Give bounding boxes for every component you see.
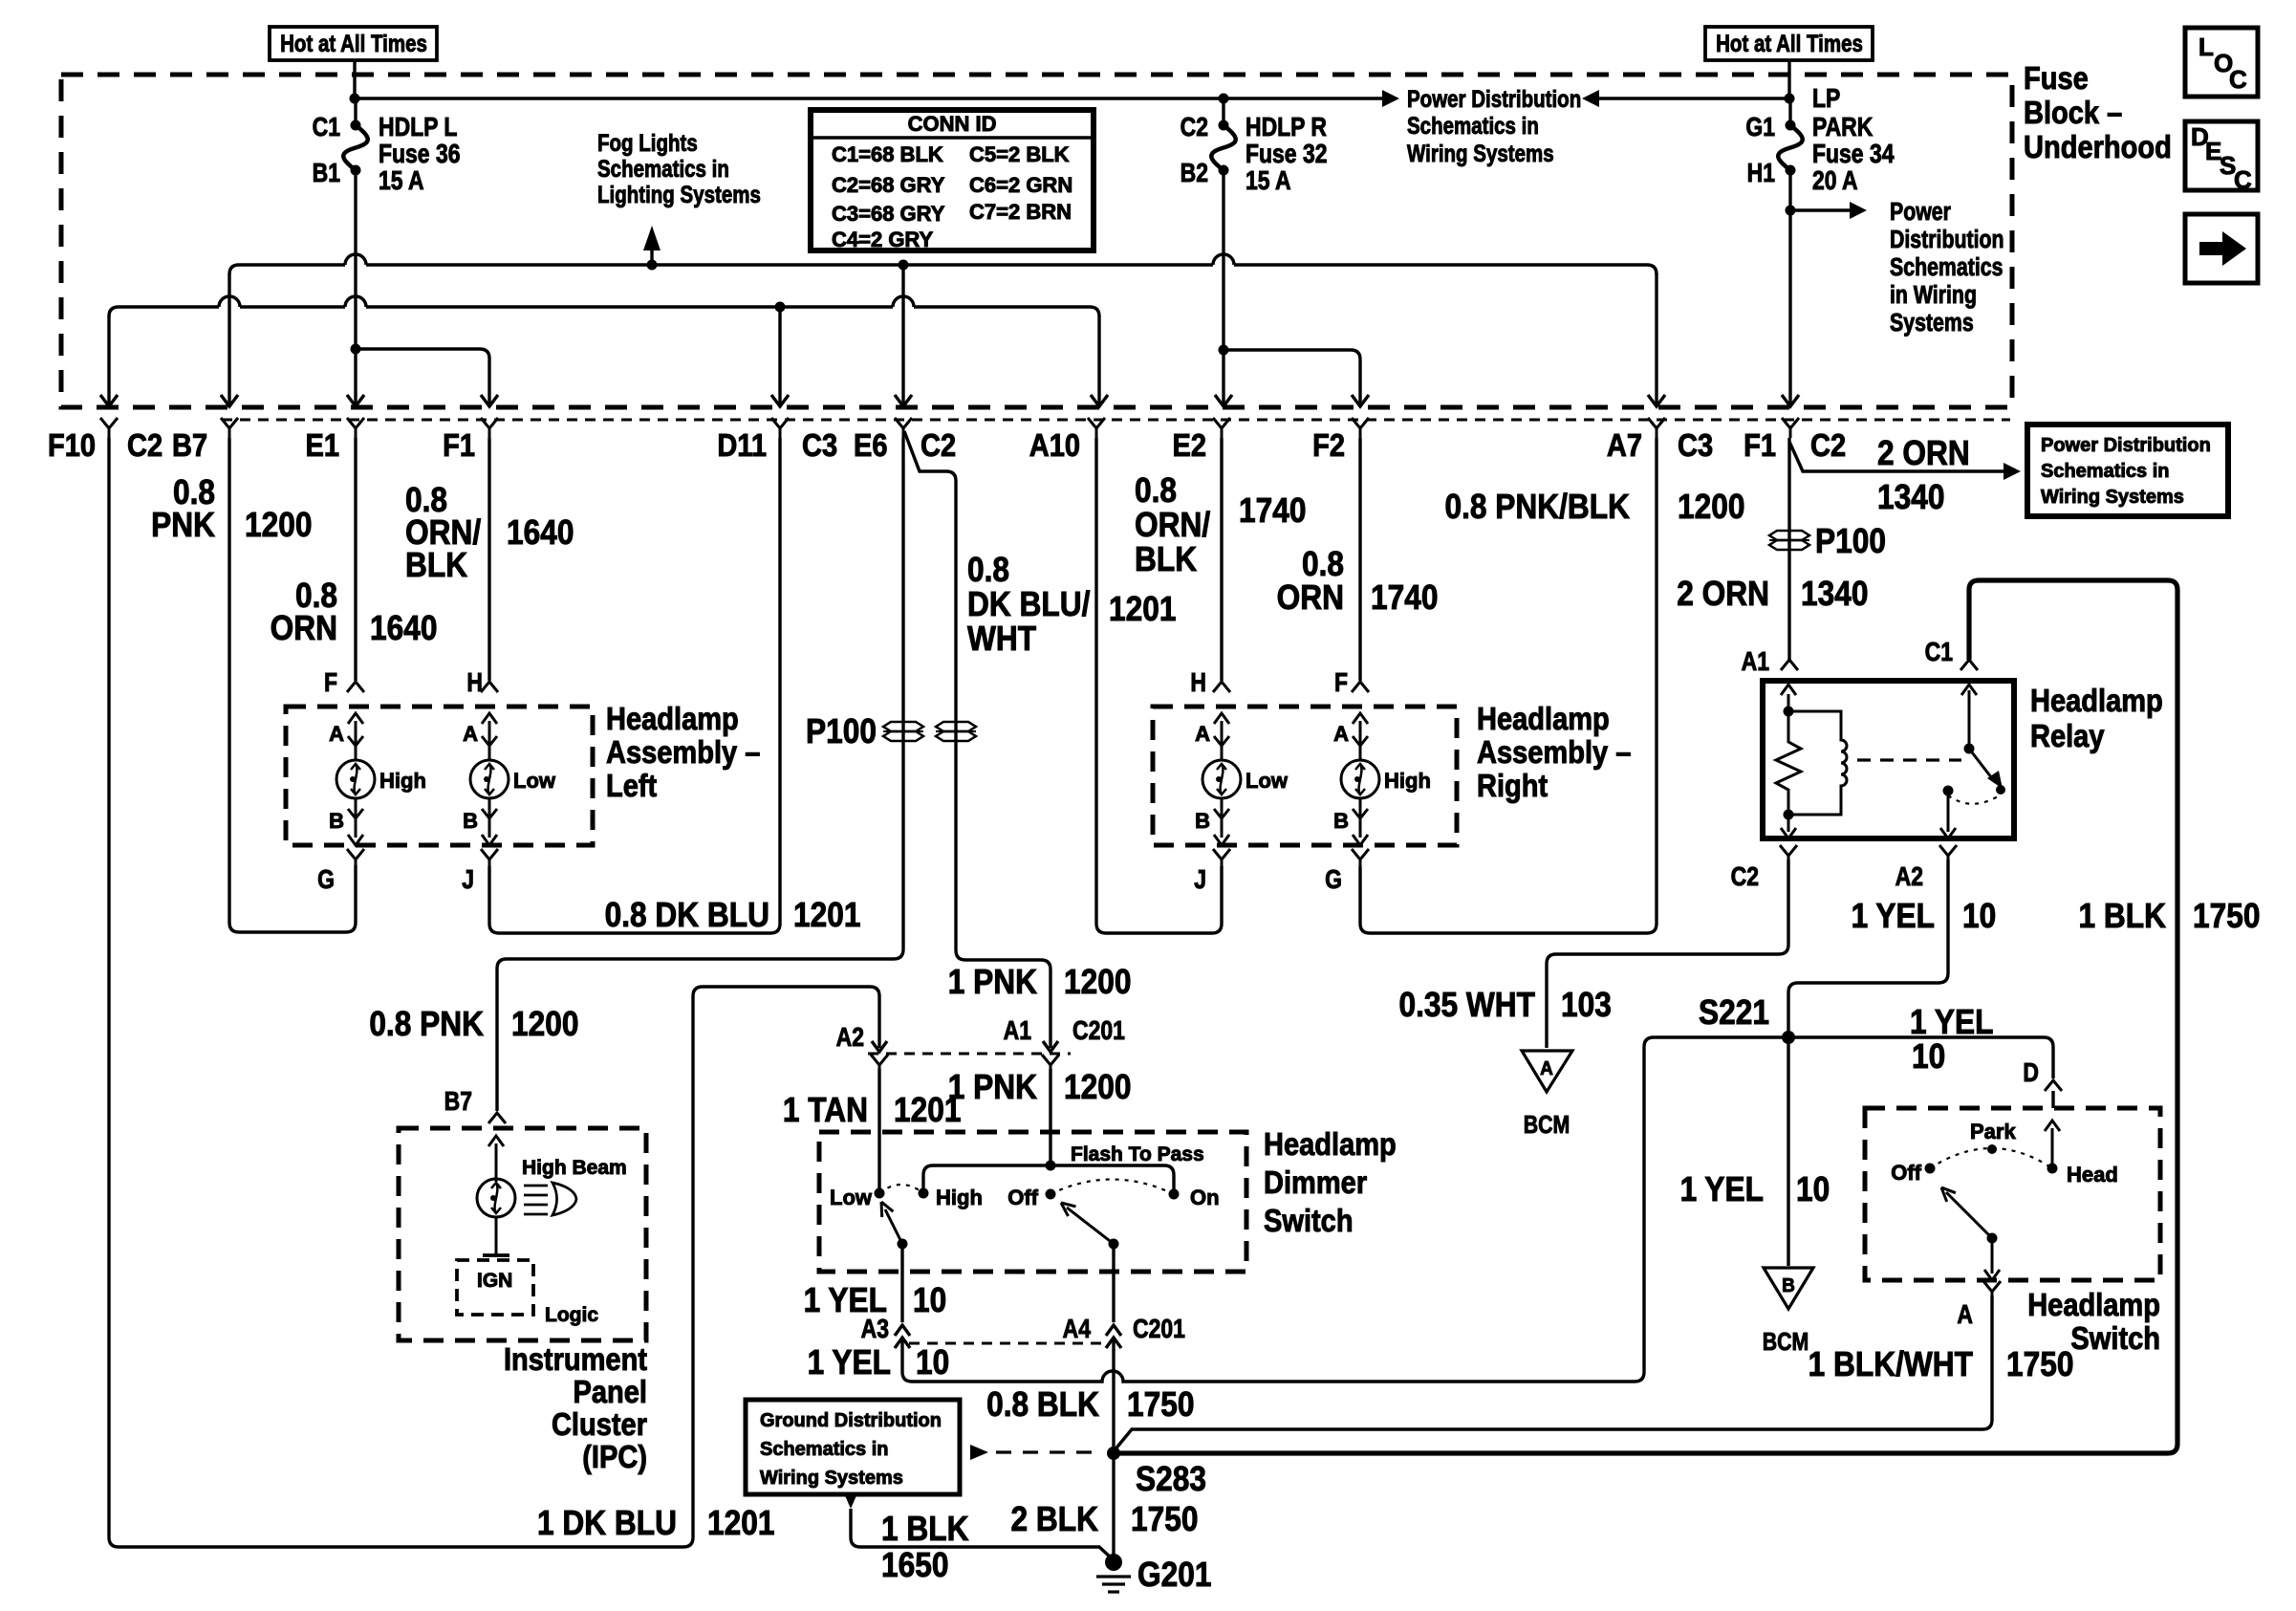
- wire C2 slant through P100 to A1: [904, 431, 1051, 1048]
- svg-text:A2: A2: [1895, 862, 1923, 892]
- contact High: [919, 1188, 929, 1199]
- connector J below left headlamp: [481, 849, 498, 867]
- svg-text:Wiring Systems: Wiring Systems: [1407, 140, 1554, 166]
- node left hot junction: [350, 94, 360, 104]
- svg-text:Power Distribution: Power Distribution: [1407, 85, 1581, 112]
- svg-text:A10: A10: [1029, 427, 1080, 463]
- splice P100 left pair: [883, 722, 923, 731]
- node E6 drop on bus1: [899, 260, 909, 271]
- svg-text:1 YEL: 1 YEL: [1910, 1003, 1993, 1041]
- svg-text:LP: LP: [1812, 84, 1840, 114]
- svg-text:H1: H1: [1747, 159, 1775, 188]
- wire D11 to J 0.8 DK BLU 1201: [489, 438, 780, 933]
- bulb Low right assembly: [1221, 721, 1224, 759]
- svg-text:Schematics: Schematics: [1890, 253, 2003, 282]
- svg-text:Fuse 34: Fuse 34: [1812, 140, 1895, 169]
- svg-text:C3: C3: [802, 427, 837, 463]
- connector C1 into relay: [1960, 660, 1978, 670]
- svg-text:Headlamp: Headlamp: [606, 701, 739, 736]
- IPC high beam indicator bulb: [495, 1143, 498, 1182]
- svg-text:A1: A1: [1742, 647, 1769, 677]
- wire bus1 to C2B7: [227, 273, 230, 405]
- svg-text:Logic: Logic: [545, 1304, 598, 1326]
- svg-text:Assembly –: Assembly –: [1477, 734, 1631, 770]
- svg-text:Schematics in: Schematics in: [1407, 112, 1539, 139]
- svg-text:1201: 1201: [1109, 590, 1176, 628]
- branch to power distribution note: [1790, 208, 1853, 211]
- svg-text:S283: S283: [1136, 1460, 1206, 1498]
- svg-text:E6: E6: [854, 427, 888, 463]
- connector G below right headlamp: [1352, 849, 1369, 867]
- svg-text:Underhood: Underhood: [2024, 129, 2172, 164]
- wire A3 1 YEL 10 run to S221 leg: [902, 1340, 1635, 1382]
- svg-text:Systems: Systems: [1890, 309, 1974, 337]
- svg-text:1640: 1640: [370, 609, 437, 647]
- svg-text:Hot at All Times: Hot at All Times: [280, 30, 427, 56]
- svg-text:PNK: PNK: [151, 506, 215, 544]
- svg-text:1200: 1200: [1064, 1068, 1131, 1106]
- svg-text:C: C: [2234, 165, 2252, 194]
- svg-text:Fog Lights: Fog Lights: [597, 129, 698, 156]
- svg-text:A: A: [1957, 1300, 1973, 1330]
- node fog arrow on bus1: [647, 260, 658, 271]
- svg-text:10: 10: [1796, 1170, 1830, 1208]
- svg-text:1750: 1750: [1131, 1500, 1198, 1538]
- wire C1 relay loop to S283 ground run: [1119, 580, 2177, 1453]
- contact On: [1169, 1189, 1180, 1200]
- wire S221 to headlamp switch D 1 YEL 10: [1788, 1037, 2053, 1078]
- svg-text:B2: B2: [1180, 159, 1208, 188]
- svg-text:C2=68 GRY: C2=68 GRY: [832, 173, 945, 197]
- svg-text:Schematics in: Schematics in: [2041, 461, 2170, 482]
- svg-text:Hot at All Times: Hot at All Times: [1716, 30, 1863, 56]
- svg-text:Block –: Block –: [2024, 95, 2122, 130]
- contact Park: [1987, 1144, 1997, 1154]
- svg-text:C201: C201: [1133, 1315, 1185, 1344]
- node D11 drop on bus2: [775, 302, 786, 313]
- svg-text:C2: C2: [921, 427, 956, 463]
- box Power Distribution Schematics in Wiring Systems right: [2027, 425, 2228, 516]
- svg-text:1750: 1750: [1127, 1385, 1194, 1424]
- C201 upper dashed line: [868, 1053, 1071, 1056]
- wire branch to F1: [356, 349, 489, 405]
- relay lower arrow: [1787, 815, 1790, 832]
- svg-text:BLK: BLK: [1135, 540, 1198, 578]
- svg-text:1 TAN: 1 TAN: [783, 1091, 868, 1129]
- svg-text:Wiring Systems: Wiring Systems: [2041, 487, 2184, 508]
- svg-text:C3=68 GRY: C3=68 GRY: [832, 202, 945, 226]
- svg-text:1 PNK: 1 PNK: [948, 1068, 1038, 1106]
- wire to E2: [1222, 350, 1224, 405]
- C201 lower dashed line: [909, 1342, 1104, 1345]
- svg-text:J: J: [1194, 865, 1206, 895]
- wire to E1: [354, 349, 357, 405]
- svg-text:Headlamp: Headlamp: [1264, 1126, 1397, 1162]
- connector G below left headlamp: [347, 849, 364, 867]
- dimmer pivot 1: [898, 1239, 908, 1250]
- svg-text:2 ORN: 2 ORN: [1677, 575, 1769, 613]
- dotted arc Off On: [1051, 1180, 1174, 1195]
- svg-text:B1: B1: [313, 159, 340, 188]
- headlamp assembly right dashed box: [1153, 707, 1457, 845]
- wire left hot box to bus: [353, 60, 356, 99]
- svg-text:P100: P100: [806, 712, 877, 751]
- svg-text:Distribution: Distribution: [1890, 226, 2004, 254]
- svg-text:1 DK BLU: 1 DK BLU: [537, 1504, 677, 1542]
- svg-text:C4=2 GRY: C4=2 GRY: [832, 228, 934, 251]
- svg-text:G: G: [317, 865, 335, 895]
- svg-text:ORN: ORN: [271, 609, 337, 647]
- connector A3 arrows: [895, 1325, 910, 1336]
- arrow right power distribution: [1382, 90, 1399, 107]
- arrow into F1: [1782, 395, 1799, 406]
- svg-text:1340: 1340: [1877, 478, 1944, 516]
- svg-text:1 YEL: 1 YEL: [1680, 1170, 1764, 1208]
- svg-text:H: H: [1190, 668, 1206, 698]
- ground distribution pointer: [970, 1445, 988, 1460]
- svg-text:B7: B7: [172, 427, 207, 463]
- CONN ID table: [811, 110, 1094, 250]
- svg-text:1740: 1740: [1371, 578, 1438, 617]
- svg-text:Wiring Systems: Wiring Systems: [760, 1468, 903, 1489]
- wire junction to High contact: [923, 1165, 1051, 1189]
- svg-text:E2: E2: [1172, 427, 1206, 463]
- svg-text:PARK: PARK: [1812, 113, 1874, 142]
- svg-text:Panel: Panel: [574, 1374, 647, 1409]
- svg-text:Ground Distribution: Ground Distribution: [760, 1410, 942, 1431]
- svg-text:Low: Low: [830, 1186, 873, 1209]
- svg-text:C1: C1: [313, 113, 340, 142]
- wire junction to On contact: [1051, 1165, 1174, 1189]
- svg-text:Schematics in: Schematics in: [760, 1439, 889, 1460]
- svg-text:A: A: [1195, 722, 1210, 746]
- svg-text:A1: A1: [1004, 1016, 1031, 1046]
- svg-text:1201: 1201: [707, 1504, 774, 1542]
- svg-text:1640: 1640: [507, 513, 574, 552]
- svg-text:1 YEL: 1 YEL: [808, 1343, 891, 1382]
- connector A1 C201: [1042, 1055, 1059, 1071]
- svg-text:BCM: BCM: [1763, 1328, 1809, 1357]
- wire bus2 to F10: [107, 316, 110, 405]
- flash to pass junction: [1046, 1161, 1056, 1171]
- svg-text:1650: 1650: [881, 1546, 948, 1584]
- arrow right to note: [1850, 202, 1867, 219]
- fuse block underhood dashed border: [61, 75, 2012, 407]
- node LP branch: [1786, 206, 1796, 216]
- svg-text:High: High: [936, 1186, 983, 1209]
- label Hot at All Times left: [270, 27, 437, 60]
- svg-text:0.8 PNK/BLK: 0.8 PNK/BLK: [1444, 488, 1630, 526]
- svg-text:1200: 1200: [1064, 963, 1131, 1001]
- wire E6 drop: [901, 265, 904, 405]
- connector A2 below relay: [1939, 845, 1957, 861]
- svg-text:1 BLK: 1 BLK: [2079, 897, 2167, 935]
- svg-text:0.35 WHT: 0.35 WHT: [1398, 986, 1535, 1024]
- svg-text:H: H: [466, 668, 483, 698]
- relay switch contact: [1943, 786, 1954, 796]
- svg-text:E1: E1: [305, 427, 339, 463]
- fuse HDLP R Fuse 32 15 A: [1222, 98, 1224, 125]
- wire F10 to dimmer A2 1 DK BLU 1201: [109, 438, 879, 1547]
- svg-text:C2: C2: [1810, 427, 1846, 463]
- svg-text:C1: C1: [1925, 638, 1953, 667]
- svg-text:Lighting Systems: Lighting Systems: [597, 181, 761, 207]
- svg-text:A3: A3: [861, 1315, 889, 1344]
- node E2 F2 branch: [1219, 345, 1229, 356]
- switch Head arrow to D: [2051, 1128, 2054, 1168]
- bulb High left assembly: [355, 721, 357, 759]
- svg-text:B: B: [1333, 809, 1349, 833]
- svg-text:1 YEL: 1 YEL: [1852, 897, 1935, 935]
- svg-text:Dimmer: Dimmer: [1264, 1165, 1367, 1200]
- svg-text:A: A: [1540, 1058, 1553, 1080]
- dotted arc Low High: [879, 1185, 923, 1193]
- svg-text:B: B: [329, 809, 344, 833]
- svg-text:in Wiring: in Wiring: [1890, 281, 1977, 310]
- fuse LP PARK Fuse 34 20 A: [1788, 98, 1791, 125]
- svg-text:Park: Park: [1970, 1120, 2016, 1143]
- wire S221 to BCM B 1 YEL 10: [1787, 1037, 1789, 1266]
- connector F right headlamp: [1352, 682, 1369, 692]
- svg-text:Switch: Switch: [2070, 1320, 2160, 1356]
- connector C2 below relay: [1780, 845, 1797, 861]
- wire S221 left leg to dimmer ground run: [1635, 1037, 1788, 1382]
- wire relay C2 to BCM A 0.35 WHT 103: [1547, 860, 1788, 1048]
- svg-text:Headlamp: Headlamp: [2027, 1287, 2160, 1322]
- wire bulb to IGN: [495, 1217, 498, 1254]
- svg-text:2 ORN: 2 ORN: [1877, 434, 1970, 472]
- svg-text:S221: S221: [1699, 993, 1769, 1032]
- wire F2 0.8 ORN 1740: [1358, 438, 1361, 681]
- svg-text:WHT: WHT: [967, 620, 1036, 658]
- svg-text:Relay: Relay: [2030, 718, 2105, 753]
- relay A1 arrow: [1787, 694, 1790, 711]
- wire A1 to flash junction 1 PNK 1200: [1049, 1069, 1051, 1165]
- headlamp switch dashed box: [1865, 1108, 2160, 1280]
- svg-text:1740: 1740: [1239, 491, 1306, 530]
- IGN dashed box: [457, 1260, 533, 1315]
- svg-text:C2: C2: [127, 427, 162, 463]
- wire A4 0.8 BLK 1750 to S283 with hop: [1112, 1340, 1115, 1448]
- bus 2 inside fuse block: [109, 296, 1099, 316]
- svg-text:A: A: [329, 722, 344, 746]
- LOC reference box: [2185, 28, 2258, 97]
- fuse HDLP L Fuse 36 15 A: [354, 98, 357, 125]
- svg-text:L: L: [2199, 33, 2214, 61]
- svg-text:Off: Off: [1007, 1186, 1038, 1209]
- connector A4 arrows: [1106, 1325, 1121, 1336]
- headlamp switch pivot: [1987, 1233, 1998, 1244]
- svg-text:D: D: [2023, 1058, 2039, 1088]
- svg-text:B: B: [1195, 809, 1210, 833]
- svg-text:F10: F10: [48, 427, 96, 463]
- svg-text:1200: 1200: [245, 506, 312, 544]
- svg-text:BCM: BCM: [1524, 1111, 1570, 1140]
- wire bus2 to A10: [1097, 316, 1100, 405]
- wire 1 BLK 1650 to G201: [844, 1493, 857, 1509]
- ground G201: [1105, 1554, 1122, 1571]
- svg-text:0.8 DK BLU: 0.8 DK BLU: [605, 896, 769, 934]
- svg-text:C: C: [2229, 65, 2247, 94]
- svg-text:P100: P100: [1815, 522, 1886, 560]
- bus 1 inside fuse block: [229, 254, 1657, 274]
- connector A1 into relay: [1781, 660, 1798, 670]
- svg-text:C7=2 BRN: C7=2 BRN: [969, 200, 1072, 224]
- bulb High right assembly: [1359, 721, 1362, 759]
- wire pivot1 to A3: [900, 1244, 903, 1322]
- svg-text:Schematics in: Schematics in: [597, 155, 729, 182]
- svg-text:On: On: [1190, 1186, 1220, 1209]
- connector H right headlamp: [1213, 682, 1230, 692]
- svg-text:Power: Power: [1890, 198, 1951, 227]
- dotted travel arc Off Park Head: [1930, 1148, 2052, 1168]
- svg-text:Low: Low: [1245, 769, 1289, 793]
- switch output arrow down: [1991, 1238, 1994, 1274]
- wire right hot box to bus: [1787, 60, 1790, 99]
- svg-text:Low: Low: [513, 769, 556, 793]
- svg-text:C2: C2: [1180, 113, 1208, 142]
- svg-text:1200: 1200: [511, 1005, 578, 1043]
- DESC reference box: [2185, 121, 2258, 190]
- wire A10 to right headlamp J 1201: [1096, 438, 1222, 933]
- fog lights arrow up: [643, 226, 661, 250]
- svg-text:High: High: [379, 769, 426, 793]
- svg-text:F: F: [1334, 668, 1348, 698]
- bulb Low left assembly: [488, 721, 491, 759]
- wire D11 drop: [778, 307, 781, 405]
- label Hot at All Times right: [1705, 27, 1873, 60]
- wire F1 0.8 ORN BLK 1640: [487, 438, 490, 681]
- wire branch to F2: [1224, 350, 1360, 405]
- headlamp relay box: [1763, 681, 2014, 838]
- svg-text:A7: A7: [1607, 427, 1642, 463]
- svg-text:G: G: [1325, 865, 1342, 895]
- connector B7 into IPC: [488, 1113, 506, 1123]
- connector H left headlamp: [481, 682, 498, 692]
- svg-text:1750: 1750: [2193, 897, 2260, 935]
- svg-text:Flash To Pass: Flash To Pass: [1071, 1143, 1204, 1165]
- svg-text:F2: F2: [1312, 427, 1345, 463]
- wire HDLP R fuse down: [1222, 170, 1224, 352]
- relay C1 arrow: [1968, 690, 1971, 749]
- wire E1 0.8 ORN 1640: [354, 438, 357, 681]
- box Ground Distribution Schematics in Wiring Systems: [746, 1400, 960, 1494]
- headlamp assembly left dashed box: [286, 707, 593, 845]
- wire bus1 to A7: [1655, 273, 1657, 405]
- connector D into headlamp switch: [2045, 1080, 2062, 1091]
- relay coil: [1788, 711, 1847, 815]
- svg-text:Fuse 32: Fuse 32: [1245, 140, 1327, 169]
- svg-text:ORN/: ORN/: [1135, 506, 1211, 544]
- svg-text:F1: F1: [443, 427, 475, 463]
- arrow reference box: [2185, 214, 2258, 283]
- svg-text:Right: Right: [1477, 768, 1548, 803]
- relay resistor: [1776, 711, 1801, 815]
- svg-text:Left: Left: [606, 768, 657, 803]
- arrow left from LP hot bus: [1582, 90, 1599, 107]
- node right hot junction: [1785, 94, 1795, 104]
- svg-text:High: High: [1384, 769, 1431, 793]
- hot bus toward power distribution: [355, 97, 1386, 99]
- svg-text:1200: 1200: [1678, 488, 1744, 526]
- fuse block connector dashed line: [222, 419, 2010, 422]
- IPC dashed box: [399, 1128, 646, 1340]
- svg-text:Instrument: Instrument: [504, 1341, 647, 1377]
- svg-text:0.8 PNK: 0.8 PNK: [369, 1005, 484, 1043]
- svg-text:A: A: [463, 722, 478, 746]
- svg-text:A2: A2: [836, 1023, 864, 1053]
- wire pivot2 to A4: [1112, 1244, 1115, 1322]
- svg-text:B7: B7: [444, 1087, 472, 1117]
- connector A2 C201: [871, 1055, 888, 1071]
- wire relay A2 1 YEL 10 to S221: [1788, 860, 1948, 1037]
- svg-text:Cluster: Cluster: [552, 1406, 647, 1442]
- svg-text:C5=2 BLK: C5=2 BLK: [969, 142, 1070, 166]
- svg-text:DK BLU/: DK BLU/: [967, 585, 1091, 623]
- wire A7 to right G 0.8 PNK BLK 1200: [1360, 438, 1657, 933]
- contact Off headlamp switch: [1925, 1164, 1936, 1174]
- svg-text:HDLP R: HDLP R: [1245, 113, 1327, 142]
- svg-text:Headlamp: Headlamp: [2030, 683, 2163, 718]
- contact Low: [875, 1188, 885, 1199]
- BCM triangle B: [1764, 1268, 1813, 1309]
- dimmer arm toward Low: [885, 1209, 902, 1244]
- wire switch A 1 BLK WHT 1750 to S283: [1114, 1295, 1992, 1451]
- arrow into A1 C201: [1043, 1041, 1058, 1052]
- svg-text:1340: 1340: [1801, 575, 1868, 613]
- contact Off dimmer: [1046, 1189, 1056, 1200]
- svg-text:A4: A4: [1063, 1315, 1092, 1344]
- svg-text:B: B: [463, 809, 478, 833]
- svg-text:2 BLK: 2 BLK: [1011, 1500, 1099, 1538]
- wire F1 C2 down through P100 2 ORN 1340: [1787, 438, 1790, 660]
- svg-text:10: 10: [916, 1343, 949, 1382]
- svg-text:J: J: [462, 865, 474, 895]
- svg-text:A: A: [1333, 722, 1349, 746]
- wire E2 0.8 ORN BLK 1740: [1220, 438, 1223, 681]
- contact Head: [2047, 1164, 2058, 1174]
- svg-text:10: 10: [1962, 897, 1996, 935]
- svg-text:High Beam: High Beam: [522, 1157, 627, 1179]
- svg-text:C201: C201: [1072, 1016, 1125, 1046]
- splice S221: [1782, 1031, 1795, 1044]
- svg-text:1201: 1201: [793, 896, 860, 934]
- node HDLP R tap: [1219, 94, 1229, 104]
- dimmer arm toward Off: [1067, 1208, 1114, 1244]
- svg-text:F1: F1: [1744, 427, 1776, 463]
- svg-text:1 PNK: 1 PNK: [948, 963, 1038, 1001]
- svg-text:B: B: [1782, 1275, 1795, 1297]
- svg-text:0.8: 0.8: [1135, 471, 1177, 510]
- node E1 F1 branch: [351, 344, 361, 355]
- svg-text:Head: Head: [2067, 1163, 2118, 1186]
- wire HDLP L fuse down: [354, 170, 357, 351]
- svg-text:0.8 BLK: 0.8 BLK: [986, 1385, 1099, 1424]
- svg-text:ORN: ORN: [1277, 578, 1344, 617]
- svg-text:1 BLK/WHT: 1 BLK/WHT: [1809, 1345, 1974, 1383]
- svg-text:Headlamp: Headlamp: [1477, 701, 1610, 736]
- svg-text:10: 10: [913, 1281, 946, 1319]
- connector A below headlamp switch: [1983, 1281, 2001, 1297]
- branch 2 ORN 1340 arrow to power distribution: [1789, 442, 2007, 471]
- svg-text:1750: 1750: [2006, 1345, 2073, 1383]
- svg-text:HDLP L: HDLP L: [379, 113, 457, 142]
- splice P100 right: [1769, 531, 1809, 540]
- svg-text:1 BLK: 1 BLK: [881, 1510, 969, 1548]
- switch arm toward Off: [1946, 1192, 1992, 1238]
- svg-text:G201: G201: [1137, 1556, 1211, 1594]
- wire E6 to IPC B7 0.8 PNK 1200: [497, 438, 903, 1111]
